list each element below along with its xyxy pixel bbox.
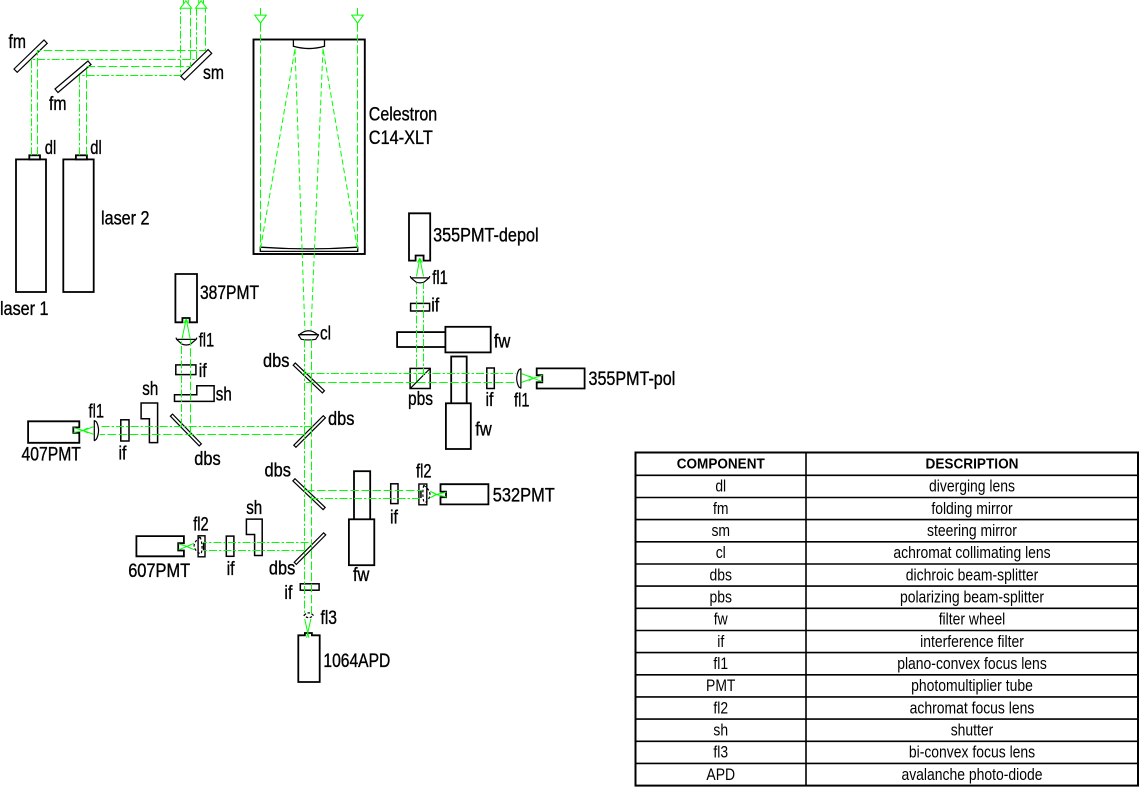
svg-text:sh: sh <box>142 379 158 400</box>
wire: dbs4 left to fl2 607 (dashed) <box>203 542 309 544</box>
svg-text:fw: fw <box>475 420 492 441</box>
svg-text:fm: fm <box>9 32 27 53</box>
svg-text:if: if <box>284 583 293 604</box>
svg-text:C14-XLT: C14-XLT <box>369 128 433 149</box>
interference filter if (387PMT) <box>176 365 196 375</box>
svg-text:steering mirror: steering mirror <box>927 521 1017 540</box>
wire: dbs5 up to 387PMT (dashed) <box>190 340 192 435</box>
wire: focus into 607PMT notch <box>179 544 187 547</box>
svg-text:achromat collimating lens: achromat collimating lens <box>893 543 1050 562</box>
svg-text:if: if <box>390 508 399 529</box>
Celestron C14-XLT telescope tube <box>254 40 365 255</box>
svg-text:dl: dl <box>90 138 102 159</box>
svg-text:fl3: fl3 <box>713 743 728 762</box>
1064APD detector <box>298 633 319 682</box>
wire: primary-right to secondary ray <box>323 49 358 249</box>
svg-text:interference filter: interference filter <box>920 632 1024 651</box>
svg-text:plano-convex focus lens: plano-convex focus lens <box>897 654 1047 673</box>
svg-text:cl: cl <box>320 323 331 344</box>
svg-text:fw: fw <box>714 610 728 629</box>
svg-text:DESCRIPTION: DESCRIPTION <box>926 456 1019 472</box>
svg-text:dbs: dbs <box>269 558 295 579</box>
wire: pbs up to fl1 depol (dash-dot) <box>416 283 418 382</box>
wire: dbs1 to pbs to fl1 (dash-dot) <box>302 373 516 375</box>
wire: fl2 to 532PMT focus cone <box>430 491 436 494</box>
wire: focus into 355PMT-pol notch <box>533 375 542 378</box>
wire: fl1 to 355PMT-depol focus cone <box>417 258 420 276</box>
607PMT tube <box>136 536 184 556</box>
svg-text:1064APD: 1064APD <box>323 651 390 672</box>
incoming sky beam arrow (left) <box>260 8 262 15</box>
svg-text:dbs: dbs <box>263 351 289 372</box>
svg-text:fl1: fl1 <box>199 330 215 351</box>
svg-text:if: if <box>227 559 236 580</box>
svg-text:if: if <box>717 632 724 651</box>
shutter sh (387PMT beam) <box>175 386 215 402</box>
svg-text:fl2: fl2 <box>416 462 432 483</box>
svg-text:355PMT-pol: 355PMT-pol <box>589 369 676 390</box>
svg-text:dbs: dbs <box>328 409 354 430</box>
filter wheel fw (pol, vertical) <box>451 357 467 404</box>
wire: dbs3 right to fl2 532 (dashed) <box>306 490 422 492</box>
focus lens fl1 (355PMT-pol) <box>517 369 521 389</box>
focus arrowhead (355PMT-pol) <box>529 376 534 379</box>
dichroic beam-splitter dbs2 (to 407PMT) <box>294 416 326 448</box>
dichroic beam-splitter dbs5 (387PMT pickoff) <box>170 414 201 446</box>
387PMT tube <box>175 274 197 322</box>
achromat focus lens fl2 (532PMT) <box>419 484 427 505</box>
shutter sh (407PMT beam) <box>141 403 158 443</box>
svg-text:fm: fm <box>713 499 729 518</box>
wire: dbs5 up to 387PMT (dash-dot) <box>181 340 183 427</box>
laser 1 <box>16 159 46 292</box>
wire: fl3 converging cross into 1064APD <box>305 619 309 638</box>
svg-text:filter wheel: filter wheel <box>939 610 1006 629</box>
focus arrowhead (532PMT) <box>432 492 437 494</box>
svg-text:PMT: PMT <box>706 676 735 695</box>
wire: dbs2 left to fl1 407 (dash-dot) <box>100 426 313 428</box>
svg-text:Celestron: Celestron <box>369 105 437 126</box>
wire: incoming beam right, down telescope to primary <box>357 23 359 248</box>
focus lens fl1 (407PMT) <box>94 420 98 441</box>
svg-text:polarizing beam-splitter: polarizing beam-splitter <box>900 588 1044 607</box>
svg-text:bi-convex focus lens: bi-convex focus lens <box>909 743 1035 762</box>
355PMT-depol tube <box>409 213 430 260</box>
svg-text:cl: cl <box>716 543 726 562</box>
wire: main vertical beam (dashed) cl to fl3 <box>311 340 313 615</box>
component description table <box>636 453 1139 786</box>
wire: fl2 to 607PMT focus cone <box>187 543 194 546</box>
svg-text:shutter: shutter <box>951 721 994 740</box>
focus arrowhead (607PMT) <box>187 544 192 546</box>
wire: dbs3 right to fl2 532 (dash-dot) <box>311 498 422 500</box>
achromat focus lens fl2 (607PMT) <box>198 536 205 557</box>
svg-text:sm: sm <box>711 521 730 540</box>
wire: fl1 to 355PMT-pol focus cone <box>521 374 533 379</box>
focus lens fl1 (355PMT-depol) <box>410 276 430 283</box>
outgoing beam arrow (laser1 pair) <box>195 1 206 9</box>
wire: dbs4 left to fl2 607 (dash-dot) <box>203 550 304 552</box>
wire: secondary to cl ray (left) <box>295 49 305 330</box>
filter wheel fw (532PMT, vertical) <box>354 471 370 520</box>
svg-text:fl3: fl3 <box>321 608 338 629</box>
telescope primary mirror <box>260 247 357 251</box>
svg-text:532PMT: 532PMT <box>493 485 555 506</box>
svg-text:fl2: fl2 <box>193 514 209 535</box>
incoming sky beam arrow (right) <box>357 8 359 15</box>
svg-text:dl: dl <box>715 477 726 496</box>
focus lens fl1 (387PMT) <box>176 338 197 345</box>
interference filter if (532PMT) <box>391 484 398 504</box>
svg-text:photomultiplier tube: photomultiplier tube <box>911 676 1033 695</box>
svg-text:sh: sh <box>216 385 232 406</box>
532PMT tube <box>441 484 489 504</box>
svg-text:if: if <box>119 444 128 465</box>
svg-text:fl1: fl1 <box>89 401 105 422</box>
interference filter if (407PMT) <box>121 420 129 441</box>
svg-text:fm: fm <box>49 94 67 115</box>
svg-text:sh: sh <box>713 721 728 740</box>
dichroic beam-splitter dbs3 (to 532PMT) <box>293 479 325 510</box>
wire: laser1 beam (dashed) <box>38 9 206 156</box>
focus arrowhead (355PMT-depol) <box>417 258 419 262</box>
svg-text:dichroic beam-splitter: dichroic beam-splitter <box>906 565 1039 584</box>
shutter sh (607PMT beam) <box>246 519 262 555</box>
laser 2 <box>63 159 93 292</box>
svg-text:if: if <box>199 361 208 382</box>
svg-text:pbs: pbs <box>710 588 733 607</box>
svg-text:laser 2: laser 2 <box>101 209 150 230</box>
wire: primary-left to secondary ray <box>261 49 296 249</box>
wire: secondary to cl ray (right) <box>311 49 323 330</box>
svg-text:fl1: fl1 <box>713 654 728 673</box>
diverging lens dl on laser 1 <box>29 155 40 159</box>
407PMT tube <box>28 421 79 443</box>
svg-text:fw: fw <box>494 331 511 352</box>
svg-text:fw: fw <box>353 565 370 586</box>
svg-text:355PMT-depol: 355PMT-depol <box>433 226 538 247</box>
dichroic beam-splitter dbs4 (to 607PMT) <box>294 533 326 565</box>
interference filter if (607PMT) <box>226 536 234 556</box>
wire: dbs2 left to fl1 407 (dashed) <box>100 434 305 436</box>
svg-text:607PMT: 607PMT <box>128 561 190 582</box>
svg-text:if: if <box>486 390 495 411</box>
bi-convex focus lens fl3 <box>304 613 313 618</box>
svg-text:fl1: fl1 <box>432 268 448 289</box>
svg-text:folding mirror: folding mirror <box>931 499 1013 518</box>
wire: pbs up to fl1 depol (dash-dot 2) <box>423 283 425 376</box>
focus arrowhead (387PMT) <box>184 319 186 323</box>
wire: laser2 beam (dashed) <box>87 9 191 156</box>
svg-text:diverging lens: diverging lens <box>929 477 1015 496</box>
svg-text:sm: sm <box>203 63 224 84</box>
svg-text:pbs: pbs <box>408 389 433 410</box>
wire: fl1 to 387PMT focus cone <box>182 319 186 339</box>
svg-text:sh: sh <box>246 498 262 519</box>
wire: laser2 beam (dash-dot) <box>80 9 181 156</box>
svg-text:APD: APD <box>706 765 735 784</box>
focus arrowhead (407PMT) <box>83 428 88 431</box>
355PMT-pol tube <box>537 368 585 388</box>
steering mirror sm <box>181 50 212 80</box>
interference filter if (1064APD) <box>300 584 319 590</box>
dichroic beam-splitter dbs1 (top, to pbs) <box>293 363 324 393</box>
telescope secondary mirror <box>293 40 324 48</box>
svg-text:407PMT: 407PMT <box>22 445 82 466</box>
svg-text:dbs: dbs <box>265 460 291 481</box>
collimating lens cl <box>300 331 318 335</box>
svg-text:dl: dl <box>45 138 57 159</box>
folding mirror fm (upper left) <box>14 40 47 72</box>
svg-text:laser 1: laser 1 <box>0 299 49 320</box>
wire: main vertical beam (dash-dot) cl to fl3 <box>304 340 306 615</box>
wire: fl1 to 407PMT focus cone <box>83 427 94 431</box>
svg-text:if: if <box>431 295 440 316</box>
wire: focus into 532PMT notch <box>436 492 446 494</box>
polarizing beam-splitter pbs <box>410 368 430 388</box>
interference filter if (355PMT-pol) <box>487 368 495 389</box>
svg-text:COMPONENT: COMPONENT <box>677 456 765 472</box>
svg-text:achromat focus lens: achromat focus lens <box>910 698 1035 717</box>
svg-text:fl2: fl2 <box>713 698 728 717</box>
svg-text:fl1: fl1 <box>514 391 530 412</box>
wire: laser1 beam (dash-dot) up, via fm, to sm, up to sky arrow <box>32 9 197 156</box>
wire: focus into 407PMT notch <box>74 428 84 431</box>
svg-text:dbs: dbs <box>710 565 733 584</box>
wire: dbs1 to pbs to fl1 (dashed) <box>306 382 516 384</box>
interference filter if (355PMT-depol) <box>411 303 430 311</box>
filter wheel fw (depol, horizontal) <box>397 332 445 347</box>
svg-text:avalanche photo-diode: avalanche photo-diode <box>901 765 1042 784</box>
svg-text:387PMT: 387PMT <box>200 283 259 304</box>
diverging lens dl on laser 2 <box>76 155 87 159</box>
svg-text:dbs: dbs <box>194 449 220 470</box>
outgoing beam arrow (laser2 pair) <box>180 1 191 9</box>
folding mirror fm (second) <box>55 61 91 93</box>
wire: incoming beam left, down telescope to primary <box>260 23 262 248</box>
